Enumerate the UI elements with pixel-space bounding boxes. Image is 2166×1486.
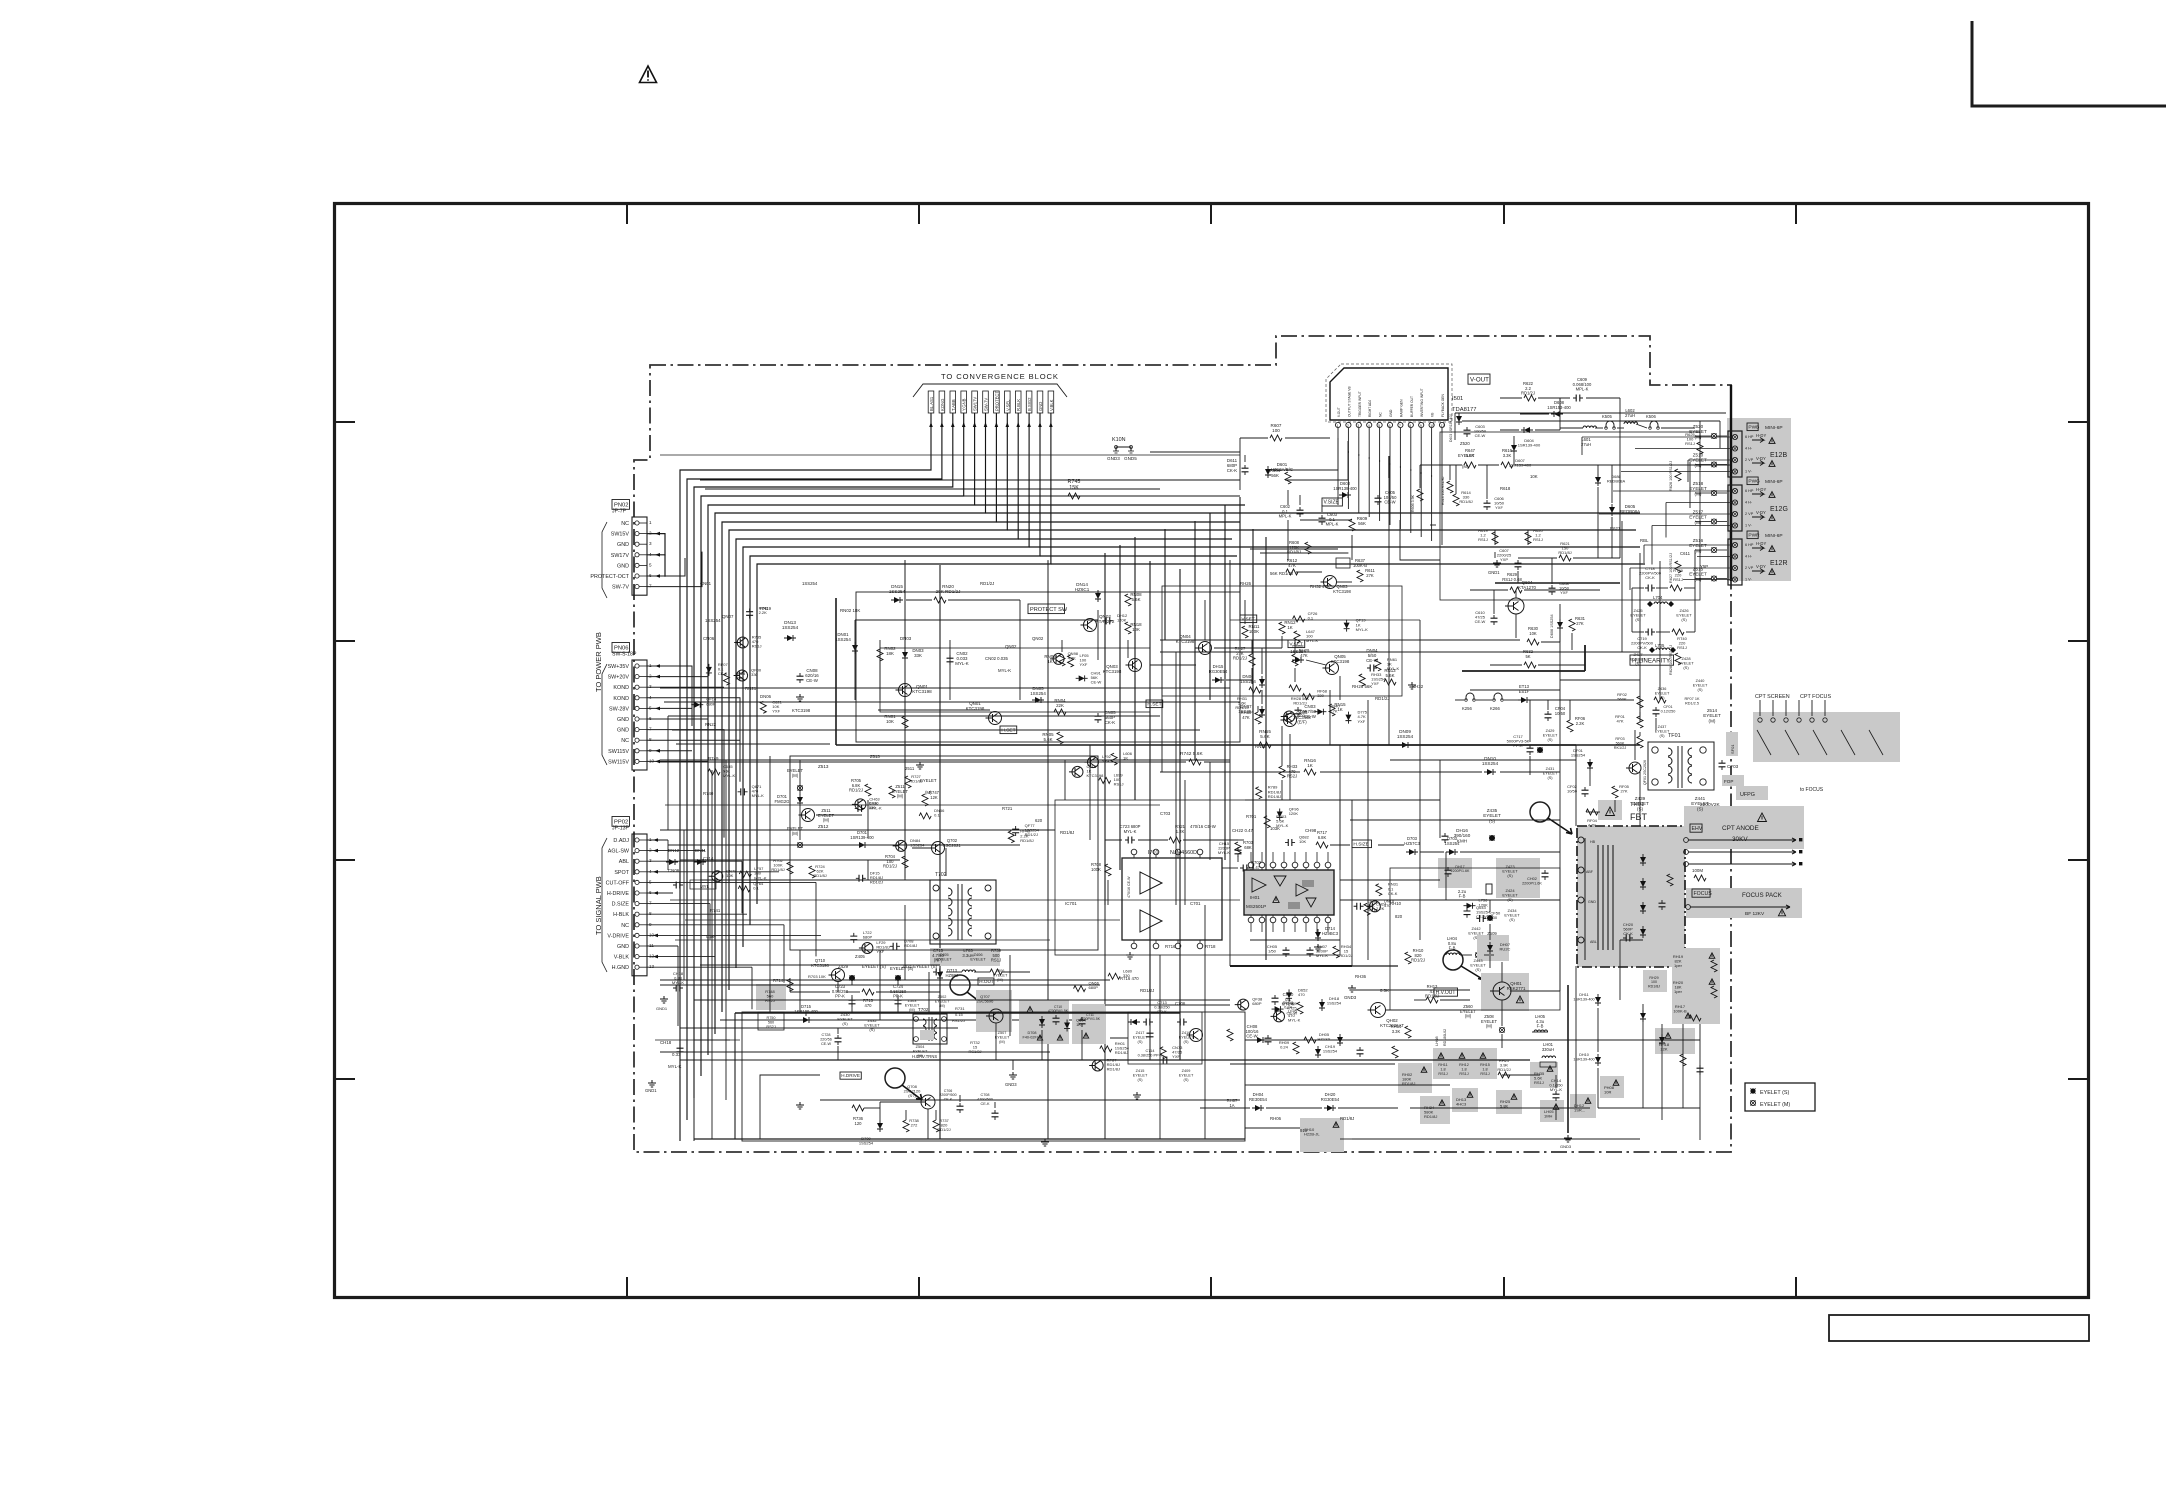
diode D701 (775, 794, 803, 806)
svg-text:SW17V: SW17V (973, 397, 978, 411)
svg-text:E12G: E12G (1770, 506, 1788, 513)
capacitor C723 (832, 984, 856, 1007)
svg-text:ABL: ABL (1590, 940, 1597, 944)
svg-text:V-OUT: V-OUT (1470, 376, 1489, 383)
svg-text:SW-7V: SW-7V (984, 398, 989, 411)
svg-text:RD1/2J: RD1/2J (1025, 832, 1038, 837)
svg-text:CE-W: CE-W (1091, 680, 1102, 685)
resistor R745 (964, 479, 1240, 499)
convergence pin BL.AS1 (928, 391, 934, 413)
svg-text:1SR139-400: 1SR139-400 (1518, 443, 1541, 448)
svg-text:Z429: Z429 (1546, 729, 1555, 733)
svg-text:Z520: Z520 (1460, 441, 1470, 446)
eyelet Z509 (1475, 931, 1500, 958)
svg-text:1SS254: 1SS254 (1323, 1049, 1338, 1054)
svg-text:0.5W: 0.5W (706, 934, 717, 939)
svg-text:EYELET (M): EYELET (M) (1760, 1102, 1790, 1108)
diode DN04 (1366, 648, 1379, 672)
svg-text:H-BLK: H-BLK (613, 912, 629, 918)
svg-text:GND5: GND5 (1124, 456, 1137, 461)
wires to connectors right (1582, 437, 1732, 590)
svg-text:GND: GND (1588, 900, 1596, 904)
resistor R708 (1091, 862, 1111, 876)
svg-text:RS1J: RS1J (752, 644, 762, 649)
svg-text:CK-K: CK-K (1645, 575, 1655, 580)
diode DH11 (1573, 993, 1601, 1006)
resistor RF04 (1586, 809, 1598, 828)
svg-text:1SS254: 1SS254 (705, 618, 721, 623)
svg-text:GND1: GND1 (656, 1006, 668, 1011)
wire box lower left (694, 1040, 1245, 1141)
capacitor C724 (890, 984, 907, 1007)
svg-text:EYELET: EYELET (913, 1049, 928, 1053)
svg-text:GND3: GND3 (1005, 1082, 1017, 1087)
svg-text:EHV: EHV (1692, 826, 1703, 832)
label to FOCUS (1800, 787, 1824, 793)
svg-text:MYL-K: MYL-K (1218, 850, 1231, 855)
svg-text:FBT: FBT (1630, 812, 1648, 822)
svg-text:47K: 47K (1300, 653, 1308, 658)
annotation circle H.OUT (950, 975, 988, 1008)
resistor R748 gray (756, 984, 786, 1010)
transistor Q707 H-out gray (976, 990, 1012, 1044)
capacitor C723 R721 (1120, 824, 1186, 844)
svg-text:5: 5 (1378, 424, 1380, 428)
anode arrows (1684, 838, 1803, 867)
svg-text:(S): (S) (1659, 734, 1665, 738)
svg-text:47K: 47K (1242, 715, 1250, 720)
annotation circle top (1530, 802, 1572, 834)
capacitor DH17 gray (1438, 858, 1472, 888)
resistor RN01 (884, 714, 908, 728)
capacitor C717 (1507, 734, 1534, 755)
diode D703b (1445, 836, 1461, 855)
svg-text:KOND: KOND (613, 685, 629, 691)
svg-text:GND: GND (1038, 402, 1043, 411)
svg-text:1SR139-400: 1SR139-400 (1333, 486, 1357, 491)
wire top left IC (1150, 438, 1245, 490)
svg-text:(M): (M) (997, 978, 1003, 982)
svg-text:(M): (M) (999, 1040, 1005, 1044)
eyelet Z430 Z432 (837, 1012, 880, 1032)
svg-text:(S): (S) (1183, 1078, 1189, 1082)
svg-text:K10N: K10N (1112, 437, 1126, 443)
svg-text:1K: 1K (1287, 625, 1292, 630)
diode D603 (1333, 481, 1357, 498)
resistor R604 (1270, 468, 1291, 484)
label H.V.OUT (1434, 988, 1458, 996)
svg-text:C611: C611 (1680, 551, 1691, 556)
svg-text:(S): (S) (1475, 967, 1481, 972)
svg-text:(M): (M) (1462, 464, 1469, 469)
svg-text:1SS254: 1SS254 (1571, 753, 1586, 758)
svg-text:56K: 56K (1271, 473, 1279, 478)
IC IH01 MS2501P (1244, 852, 1334, 932)
svg-text:H.SIZE: H.SIZE (1353, 841, 1368, 847)
svg-text:RH15: RH15 (1480, 1063, 1490, 1067)
svg-text:(E/F): (E/F) (1297, 720, 1307, 725)
svg-text:V-DY: V-DY (1756, 510, 1766, 515)
capacitor CH18 left (656, 971, 684, 1011)
convergence pin R.BLK (1015, 391, 1021, 413)
svg-text:100K: 100K (1091, 867, 1101, 872)
svg-text:R750: R750 (766, 1016, 775, 1020)
capacitor C701b (1302, 897, 1327, 910)
svg-text:(S): (S) (1137, 1078, 1143, 1082)
label H.LINEARITY (1630, 655, 1674, 665)
resistor R715 (862, 989, 874, 1008)
svg-text:JP-13P: JP-13P (612, 826, 630, 832)
svg-text:RD1/2J: RD1/2J (1521, 391, 1535, 396)
wire mesh fill (655, 455, 1700, 1139)
svg-text:CH98: CH98 (1305, 828, 1317, 833)
svg-text:ABL: ABL (619, 859, 629, 865)
transistor Q604 area (1470, 572, 1600, 668)
svg-text:CK-K: CK-K (944, 1097, 953, 1101)
svg-text:5: 5 (649, 879, 652, 884)
svg-text:GND3: GND3 (1560, 1144, 1572, 1149)
svg-text:RS1J: RS1J (1114, 782, 1124, 787)
svg-text:RF03: RF03 (1615, 737, 1624, 741)
svg-text:CK-K: CK-K (1105, 720, 1116, 725)
svg-text:MYL-K: MYL-K (668, 1064, 681, 1069)
eyelet Z431b (1543, 767, 1558, 780)
svg-text:1A: 1A (1229, 1103, 1234, 1108)
capacitor C602 (1279, 504, 1304, 519)
svg-text:F-B: F-B (1537, 1024, 1544, 1029)
svg-text:(M): (M) (792, 773, 799, 778)
svg-text:Z502: Z502 (938, 995, 947, 999)
svg-text:1.8: 1.8 (1440, 1067, 1445, 1071)
diode DN15 resistor RN20 (889, 584, 1020, 603)
svg-text:CK-K: CK-K (1227, 468, 1238, 473)
svg-text:100K: 100K (1249, 629, 1259, 634)
gray cap block C711 (1072, 1004, 1106, 1044)
svg-text:CH18: CH18 (660, 1040, 672, 1045)
wires opamp (1105, 840, 1560, 905)
svg-text:0.1: 0.1 (1308, 615, 1314, 620)
convergence pin T.ABB (950, 391, 956, 413)
wire bus convergence drops (929, 413, 1052, 447)
transistor Q710 (808, 958, 845, 982)
svg-text:27uH: 27uH (1581, 442, 1591, 447)
svg-text:RD1/2J: RD1/2J (1293, 701, 1306, 706)
svg-text:470/16 CE-W: 470/16 CE-W (1127, 876, 1131, 898)
transistor QF01 (1626, 760, 1647, 785)
svg-text:3: 3 (649, 541, 652, 546)
svg-text:RD1/8J: RD1/8J (1115, 1050, 1128, 1055)
svg-text:H.DRIVE: H.DRIVE (841, 1073, 860, 1078)
svg-text:(S): (S) (1183, 1040, 1189, 1044)
resistor R612 (1286, 558, 1298, 575)
resistor RF06 (1567, 716, 1586, 732)
svg-text:MYL-K: MYL-K (1124, 829, 1137, 834)
svg-text:FOCUS PACK: FOCUS PACK (1742, 892, 1783, 899)
svg-text:6: 6 (649, 890, 652, 895)
gray label RH02 (1398, 1063, 1432, 1093)
svg-text:EYELET (S): EYELET (S) (890, 966, 914, 971)
svg-text:(S): (S) (1547, 776, 1553, 780)
svg-text:27uH: 27uH (1625, 413, 1635, 418)
svg-text:SW115V: SW115V (608, 759, 629, 765)
resistor R703 (1235, 840, 1254, 854)
label V.SIZE (1322, 498, 1342, 506)
wire bus pn06 stubs (647, 664, 740, 893)
svg-text:1.8: 1.8 (1482, 1067, 1487, 1071)
svg-text:5.6K: 5.6K (1260, 734, 1270, 739)
svg-text:Z409: Z409 (1182, 1069, 1191, 1073)
svg-text:D.ADJ: D.ADJ (613, 838, 629, 844)
svg-text:CF03: CF03 (1727, 764, 1739, 769)
svg-text:4.7K: 4.7K (1329, 708, 1338, 713)
eyelet Z428 (1678, 656, 1694, 670)
svg-text:4 H-: 4 H- (1745, 447, 1753, 451)
wires from IC501 (1270, 438, 1442, 480)
label H.SET 2 (1000, 726, 1017, 734)
svg-text:V-DRIVE: V-DRIVE (607, 933, 629, 939)
wires fbt bottom (1502, 1008, 1598, 1120)
svg-text:CPT ANODE: CPT ANODE (1722, 825, 1759, 832)
wires protect cluster (855, 600, 1340, 710)
resistor RN13 (1384, 668, 1416, 689)
svg-text:27K: 27K (1366, 573, 1374, 578)
svg-text:Y.GNB: Y.GNB (962, 398, 967, 411)
svg-text:REDB08A: REDB08A (1607, 479, 1626, 484)
svg-text:RG30E54: RG30E54 (1209, 669, 1228, 674)
gray box RH18 (1655, 1028, 1695, 1054)
svg-text:1per: 1per (1674, 989, 1683, 994)
svg-text:470/16 CE-W: 470/16 CE-W (1190, 824, 1217, 829)
svg-text:NC: NC (621, 738, 629, 744)
svg-text:KTA1270: KTA1270 (1518, 585, 1537, 590)
svg-text:Z415: Z415 (1136, 1069, 1145, 1073)
eyelet Z441 (1691, 796, 1709, 811)
resistor RF07 (1654, 679, 1708, 705)
gray label RH35 (1530, 1062, 1558, 1088)
wires RF cluster (1455, 700, 1656, 812)
svg-text:HB: HB (1590, 840, 1596, 844)
svg-text:IH01: IH01 (1250, 895, 1260, 900)
svg-text:LH08: LH08 (1434, 1036, 1439, 1046)
resistor R736 (852, 1105, 864, 1126)
svg-text:TO CONVERGENCE BLOCK: TO CONVERGENCE BLOCK (941, 372, 1059, 381)
svg-text:RS1/2J: RS1/2J (952, 1018, 965, 1023)
ground symbols scatter (645, 762, 1322, 1146)
coil L601 (1581, 426, 1597, 447)
svg-text:MYL-K: MYL-K (1316, 953, 1329, 958)
label V.SET (1240, 615, 1257, 623)
svg-text:CK-K: CK-K (1637, 645, 1647, 650)
svg-text:1/50: 1/50 (1268, 949, 1277, 954)
annotation circle H.DRIVE (885, 1068, 922, 1100)
svg-text:B.SIG2: B.SIG2 (1027, 397, 1032, 411)
gray box small mid (1643, 970, 1667, 992)
capacitor CF04 (1545, 706, 1566, 721)
eyelet Z425 (1630, 608, 1646, 622)
svg-text:15K: 15K (1069, 485, 1079, 491)
eyelet Z512 (787, 824, 829, 848)
ground GND1 power (1488, 560, 1501, 575)
svg-text:0.24: 0.24 (1280, 1045, 1289, 1050)
wire bus horizontals right (700, 480, 1645, 564)
resistor RN06 (1044, 654, 1065, 666)
eyelet Z442 (1468, 915, 1492, 940)
svg-text:10K: 10K (726, 873, 733, 878)
svg-text:EYELET (S): EYELET (S) (1760, 1090, 1789, 1096)
resistor RT32 (968, 1040, 981, 1054)
svg-text:RD1/8J: RD1/8J (1107, 1067, 1120, 1072)
svg-text:1SS254: 1SS254 (1397, 734, 1414, 739)
svg-text:2SC5696: 2SC5696 (977, 999, 994, 1004)
capacitor CH14 (1549, 1078, 1563, 1101)
svg-text:470: 470 (865, 1003, 873, 1008)
label PROTECT SW (1028, 604, 1068, 614)
svg-text:1: 1 (1337, 424, 1339, 428)
resistor RH14 (1391, 1024, 1411, 1038)
svg-text:1SR139-400: 1SR139-400 (1573, 997, 1594, 1001)
svg-text:GND3: GND3 (1107, 456, 1120, 461)
heavy trunk y671 (1462, 645, 1585, 671)
svg-text:(S): (S) (1683, 665, 1689, 670)
svg-text:CE-W: CE-W (1246, 1034, 1257, 1039)
svg-text:CF01: CF01 (1663, 705, 1672, 709)
svg-text:R716: R716 (1165, 944, 1176, 949)
resistor R613 (1441, 476, 1453, 505)
resistor R609 (1349, 516, 1368, 531)
svg-text:CN06: CN06 (703, 636, 715, 641)
eyelet Z560 (1460, 1004, 1477, 1019)
svg-text:D606 1SS254: D606 1SS254 (1550, 614, 1554, 638)
capacitor C713 cluster (1128, 1000, 1202, 1082)
svg-text:RH32: RH32 (1412, 684, 1424, 689)
svg-text:MYL-K: MYL-K (1387, 666, 1400, 671)
svg-text:EYELET: EYELET (1458, 453, 1475, 458)
eyelet Z513 (787, 764, 829, 791)
resistor RN15 (1329, 702, 1346, 716)
resistor R712 (1255, 882, 1274, 896)
svg-text:(S): (S) (1509, 917, 1515, 922)
svg-text:KTA1272: KTA1272 (1096, 619, 1115, 624)
pcb edge heavy line (1730, 385, 1732, 581)
resistor RN08 (1125, 592, 1142, 606)
svg-text:1K: 1K (1047, 659, 1052, 664)
svg-text:6: 6 (1389, 424, 1391, 428)
coil LH08 (1434, 1029, 1447, 1046)
pcb outline dash-dot boundary (634, 336, 1731, 1152)
transistor Q702 (929, 838, 962, 855)
resistor R705 (849, 778, 871, 796)
svg-text:CPT SCREEN: CPT SCREEN (1755, 694, 1790, 700)
svg-text:(M): (M) (823, 818, 830, 823)
svg-text:RBL: RBL (1640, 538, 1649, 543)
svg-text:7: 7 (1399, 424, 1401, 428)
svg-text:0.12/250: 0.12/250 (1661, 709, 1676, 713)
svg-text:11: 11 (1441, 424, 1445, 428)
convergence pin PROTECT (994, 391, 1000, 413)
diode DN07 (1238, 704, 1265, 718)
svg-text:MS2501P: MS2501P (1246, 904, 1266, 909)
svg-text:1 V-: 1 V- (1745, 524, 1752, 528)
capacitor C719 (1631, 629, 1655, 651)
svg-text:2 VP: 2 VP (1745, 458, 1754, 462)
svg-text:to FOCUS: to FOCUS (1800, 787, 1824, 793)
svg-text:RS1J: RS1J (991, 958, 1001, 963)
svg-text:D708: D708 (1027, 1031, 1036, 1035)
svg-text:RG30E54: RG30E54 (1321, 1097, 1340, 1102)
svg-text:MYL-K: MYL-K (672, 980, 685, 985)
svg-text:10: 10 (1430, 424, 1434, 428)
gray label CH10H (1300, 1118, 1344, 1152)
resistor R742 (660, 751, 1230, 765)
svg-text:4: 4 (649, 869, 652, 874)
resistor RH10 (1405, 948, 1425, 964)
svg-text:V-DY: V-DY (1756, 564, 1766, 569)
diode D601 (1265, 462, 1293, 478)
resistor R747 (922, 790, 940, 806)
svg-text:100: 100 (1272, 428, 1280, 433)
connector E12R MINI-6P (1728, 531, 1788, 585)
diode DN06 (1240, 674, 1265, 688)
svg-text:CUT-OFF: CUT-OFF (606, 880, 630, 886)
svg-text:MINI-6P: MINI-6P (1765, 425, 1783, 431)
convergence pin V.SEL (1005, 391, 1011, 413)
coil L705 (1649, 643, 1676, 653)
svg-text:680P: 680P (1252, 1001, 1262, 1006)
resistor R622 (1521, 381, 1536, 401)
svg-text:RH11: RH11 (1438, 1063, 1447, 1067)
svg-text:RAMP GEN: RAMP GEN (1399, 399, 1403, 417)
svg-text:MINI-6P: MINI-6P (1765, 479, 1783, 485)
jumper K506 (1646, 414, 1659, 429)
svg-text:KTC3198: KTC3198 (1333, 589, 1351, 594)
svg-text:10K: 10K (1299, 839, 1306, 844)
wires power cluster (1420, 465, 1730, 584)
svg-text:RD1/8J: RD1/8J (904, 943, 917, 948)
svg-text:F-B: F-B (1459, 894, 1466, 899)
svg-text:330: 330 (869, 805, 876, 810)
label H.SET (1146, 700, 1163, 708)
resistor R717 (1316, 830, 1328, 848)
eyelet Z435 (1483, 808, 1501, 841)
capacitor C728 (820, 1033, 841, 1046)
svg-text:Z513: Z513 (870, 754, 880, 759)
transformer TF01 (1648, 733, 1714, 790)
connector group bracket (602, 522, 607, 972)
resistor RN02 (877, 646, 896, 661)
CPT ANODE gray block (1684, 806, 1804, 849)
svg-text:GND3: GND3 (1344, 995, 1357, 1000)
svg-text:5: 5 (649, 562, 652, 567)
gray label RH24 (1420, 1096, 1450, 1124)
svg-text:27K: 27K (1576, 621, 1584, 626)
gray label DH12 (1570, 1094, 1596, 1118)
svg-text:BL.AS1: BL.AS1 (929, 396, 934, 411)
wires top feed right connector (1455, 413, 1726, 448)
svg-text:QN02: QN02 (1032, 636, 1044, 641)
svg-text:KTC3198: KTC3198 (1103, 669, 1122, 674)
svg-text:3.3K: 3.3K (1392, 1029, 1401, 1034)
svg-text:RS1J: RS1J (1438, 1072, 1447, 1076)
capacitor CN05 (1095, 710, 1117, 725)
capacitor DH16 390/160 (1442, 828, 1471, 843)
svg-text:12K: 12K (930, 795, 938, 800)
svg-text:CN01: CN01 (700, 581, 712, 586)
svg-text:Z405: Z405 (855, 954, 865, 959)
resistor R611 (1357, 568, 1376, 582)
capacitor C702 (1240, 860, 1263, 875)
svg-text:RE30E54: RE30E54 (1249, 1097, 1268, 1102)
resistor R704 (883, 854, 908, 869)
